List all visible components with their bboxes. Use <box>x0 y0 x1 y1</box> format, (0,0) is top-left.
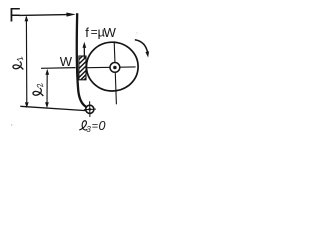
label l3 = 0 <box>79 119 105 134</box>
svg-text:=: = <box>92 120 98 132</box>
drum hub center dot <box>113 66 117 70</box>
force F arrowhead <box>66 13 76 17</box>
svg-text:f: f <box>85 25 89 40</box>
svg-text:=: = <box>91 25 98 39</box>
faint scan speck top-right <box>136 32 137 33</box>
l2 top arrowhead <box>45 69 49 75</box>
l1 top arrowhead <box>25 15 29 21</box>
dimension line l2 <box>46 71 48 107</box>
brake drum circle <box>87 42 139 91</box>
label l2 (rotated script ell with subscript 2) <box>30 81 48 99</box>
svg-text:3: 3 <box>86 125 91 134</box>
drum horizontal centerline <box>87 66 135 69</box>
faint scan speck bottom-left <box>11 124 12 125</box>
drum vertical centerline <box>114 41 116 104</box>
svg-text:0: 0 <box>99 119 106 133</box>
lever bar <box>77 13 86 107</box>
W reference line <box>41 67 76 70</box>
svg-text:F: F <box>9 6 21 27</box>
pivot center dot <box>88 108 91 111</box>
bottom datum line <box>20 106 86 110</box>
pivot crosshair <box>84 101 96 117</box>
svg-text:W: W <box>104 25 117 40</box>
label l1 (rotated script ell with subscript 1) <box>10 55 28 73</box>
l1 bottom arrowhead <box>25 102 29 108</box>
dimension line l1 <box>25 17 27 107</box>
drum hub circle <box>110 63 120 73</box>
force F line <box>19 14 68 17</box>
friction force f arrow <box>83 46 85 58</box>
rotation direction arrow <box>135 40 148 53</box>
pivot circle <box>86 105 94 113</box>
friction block (hatched) <box>79 56 86 80</box>
l2 bottom arrowhead <box>45 102 49 108</box>
svg-text:W: W <box>60 54 73 69</box>
